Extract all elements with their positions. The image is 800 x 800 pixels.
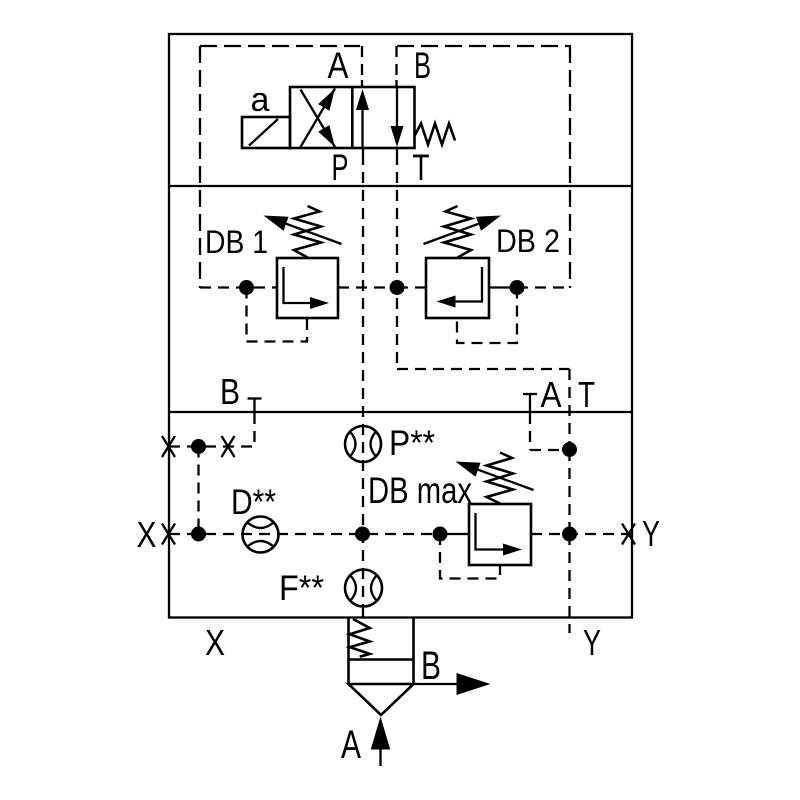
manifold outline rectangle	[169, 34, 632, 618]
DB2 spring	[444, 206, 471, 258]
wire: top dashed frame horizontal right (B branch)	[397, 45, 571, 47]
wire: T line vertical into manifold	[568, 369, 570, 450]
wire: X line vertical	[197, 447, 199, 535]
wire: top dashed frame horizontal left (A branch)	[200, 45, 360, 47]
B port plug tick	[248, 397, 262, 399]
svg-text:B: B	[421, 644, 441, 688]
svg-text:T: T	[413, 147, 430, 188]
port B outlet arrow	[414, 683, 459, 685]
wire: P line down from valve	[362, 148, 364, 154]
wire: Y line to bottom	[568, 534, 570, 633]
check valve body	[347, 618, 350, 684]
wire: main X-Y gallery dashed	[169, 533, 443, 535]
wire: A port stub above valve	[361, 46, 363, 82]
node A/T junction	[562, 442, 577, 457]
valve crossed arrow P-B	[301, 89, 336, 148]
relief valve DB2 body	[426, 258, 489, 318]
wire: dashed frame left vertical (A line to DB1)	[199, 46, 201, 288]
wire: T junction to DB2 inlet	[397, 286, 426, 288]
svg-text:B: B	[414, 45, 431, 86]
node gallery P junction	[355, 527, 370, 542]
node B branch junction	[191, 439, 206, 454]
directional valve U1 body	[290, 87, 415, 148]
wire: T line horizontal jog	[397, 368, 570, 370]
wire: T line down from valve	[396, 148, 398, 154]
DB max spring	[487, 453, 514, 504]
relief valve DB1 body	[277, 258, 338, 318]
wire: A port to T junction	[530, 449, 570, 451]
svg-text:DB 2: DB 2	[496, 223, 560, 259]
valve crossed arrow A-T	[301, 90, 336, 148]
wire: DB1 outlet to T junction	[338, 286, 397, 288]
section divider upper	[169, 185, 632, 187]
DB1 spring	[294, 206, 321, 258]
section divider lower (manifold top face)	[169, 411, 632, 413]
svg-text:B: B	[220, 371, 240, 412]
svg-text:P: P	[332, 147, 349, 188]
orifice D**	[243, 517, 279, 553]
wire: dashed into DB1 inlet	[200, 286, 277, 288]
svg-text:T: T	[578, 374, 595, 415]
svg-text:Y: Y	[583, 622, 601, 663]
node DB max pilot junction	[433, 527, 448, 542]
svg-text:P**: P**	[389, 424, 435, 463]
wire: A port dashed down	[529, 413, 531, 450]
DB max adjustment arrow	[478, 470, 534, 490]
svg-text:DB max: DB max	[368, 470, 472, 511]
wire: B port dashed down	[253, 413, 255, 447]
solenoid a	[242, 117, 290, 148]
plug X on B branch	[222, 436, 235, 457]
svg-text:A: A	[328, 45, 349, 86]
wire: dashed frame right vertical (B line to DB2)	[569, 46, 571, 288]
svg-text:DB 1: DB 1	[205, 224, 268, 260]
valve return spring	[415, 124, 456, 145]
svg-text:X: X	[205, 622, 225, 663]
wire: DB2 junction to B line corner	[517, 286, 570, 288]
svg-text:X: X	[137, 514, 157, 555]
relief valve DB max body	[469, 504, 531, 565]
plug X at left edge (upper)	[162, 436, 175, 457]
orifice F**	[345, 570, 382, 607]
node gallery Y junction	[562, 527, 577, 542]
svg-text:D**: D**	[231, 483, 276, 522]
svg-text:a: a	[251, 81, 270, 119]
DB1 adjustment arrow	[286, 224, 342, 244]
check valve spring	[350, 619, 370, 657]
DB max pilot	[440, 534, 500, 579]
DB2 pilot drain	[457, 288, 517, 344]
svg-text:Y: Y	[642, 513, 660, 554]
valve up arrow P-A	[361, 105, 363, 148]
node T line junction	[390, 280, 405, 295]
node DB2 right junction	[510, 280, 525, 295]
wire: B port stub above valve	[395, 46, 397, 82]
DB1 pilot drain	[247, 288, 308, 342]
wire: T/Y line mid	[568, 450, 570, 534]
wire: DB2 right port	[489, 286, 513, 288]
orifice P**	[345, 426, 381, 462]
svg-text:A: A	[341, 723, 361, 767]
svg-text:A: A	[541, 374, 562, 415]
valve down arrow B-T	[396, 87, 398, 130]
wire: B branch horizontal	[169, 445, 255, 447]
check valve poppet triangle	[349, 684, 414, 715]
node DB1 inlet junction	[239, 280, 254, 295]
node gallery left junction	[191, 527, 206, 542]
svg-text:F**: F**	[279, 569, 324, 608]
DB2 adjustment arrow	[424, 224, 479, 244]
port A inlet arrow	[371, 717, 391, 750]
plug X at left edge (gallery)	[162, 524, 175, 545]
plug X at right edge	[622, 524, 635, 545]
A port plug tick	[523, 393, 537, 395]
